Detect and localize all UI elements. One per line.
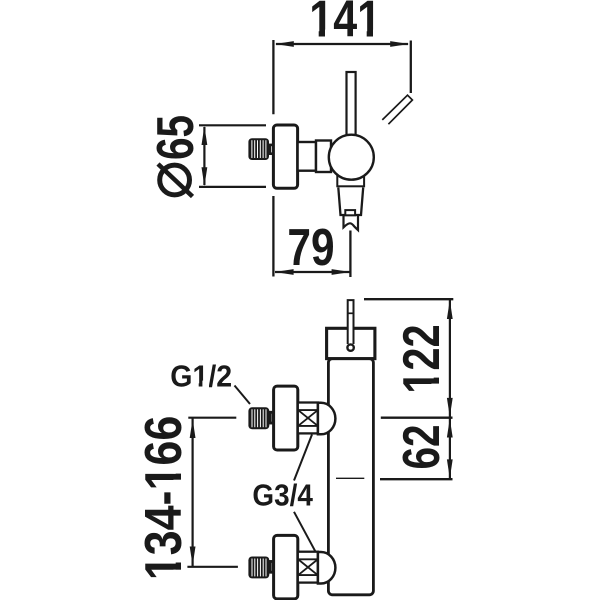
X cross upper <box>299 411 317 425</box>
handle lever bar (side view) <box>347 72 356 140</box>
svg-text:134-166: 134-166 <box>135 416 193 581</box>
svg-text:141: 141 <box>309 0 381 48</box>
spout tip with wavy break edge <box>344 216 359 230</box>
body segment A (side view) <box>298 142 316 171</box>
stem lower <box>270 561 273 572</box>
pivot circle <box>347 344 353 350</box>
escutcheon lower <box>274 535 298 599</box>
wall flange (side view) <box>273 125 297 188</box>
handle alt-position stick (diagonal) <box>382 95 412 124</box>
white patches to remove Liberation "1" foot serifs <box>173 30 441 580</box>
leader G3/4 upper <box>294 435 312 481</box>
body seam line <box>336 477 364 479</box>
arrow up Ø65 <box>202 126 208 145</box>
svg-text:65: 65 <box>146 115 204 160</box>
mixer body circle (side view) <box>329 135 374 180</box>
arrow down Ø65 <box>202 167 208 186</box>
svg-text:G1/2: G1/2 <box>170 359 232 393</box>
side nipple G1/2 (top view) <box>248 138 269 160</box>
body top cap (front view) <box>327 328 375 358</box>
nipple G1/2 (front, lower) <box>248 557 269 579</box>
ext line left 141/79 upper segment <box>272 40 274 114</box>
arrow left 141 <box>275 41 294 47</box>
arrow down 134-166 <box>190 547 196 566</box>
arrow down 62 <box>447 459 453 478</box>
dim line 141 <box>276 43 408 45</box>
D-cap lower <box>318 552 336 584</box>
D-cap upper <box>318 403 336 435</box>
union nut lower <box>298 552 318 583</box>
leader G1/2 <box>235 386 251 405</box>
body main (front view) <box>328 359 373 595</box>
leader G3/4 lower <box>294 512 315 552</box>
arrow right 141 <box>390 41 409 47</box>
ext line top 134-166 <box>188 417 236 419</box>
nipple G1/2 (front) <box>248 407 269 429</box>
arrow right 79 <box>332 269 351 275</box>
ext line right 79 <box>349 231 351 278</box>
svg-text:62: 62 <box>392 424 450 469</box>
side stem <box>270 145 274 154</box>
body segment B (side view) <box>316 141 331 173</box>
spout slot <box>345 210 355 215</box>
ext line right 62 bottom <box>380 478 453 480</box>
svg-text:G3/4: G3/4 <box>252 478 313 513</box>
escutcheon upper <box>274 386 298 450</box>
ext line bottom Ø65 <box>199 186 266 188</box>
svg-text:79: 79 <box>287 219 334 277</box>
arrow down 122 <box>447 398 453 417</box>
arrow left 79 <box>275 269 294 275</box>
lever pin mid line <box>347 312 354 314</box>
ext line bottom 134-166 <box>187 566 238 568</box>
diameter symbol slash <box>158 164 193 197</box>
dim line 79 <box>275 271 350 273</box>
dim line 134-166 <box>192 419 194 567</box>
spout taper <box>338 188 363 216</box>
svg-text:122: 122 <box>392 324 451 393</box>
ext line left 79 lower segment <box>272 196 274 277</box>
arrow up 134-166 <box>190 419 196 438</box>
union nut upper <box>298 403 318 434</box>
stem upper <box>270 412 273 423</box>
spout collar <box>337 162 364 186</box>
arrow up 122 <box>447 300 453 319</box>
ext line right 141 <box>410 41 412 94</box>
dim line Ø65 <box>203 127 205 185</box>
ext line right 122/62 middle <box>381 417 453 419</box>
ext line right 122 top <box>364 298 453 300</box>
ext line top Ø65 <box>199 124 266 126</box>
arrow up 62 <box>447 419 453 438</box>
diameter symbol circle <box>160 165 190 195</box>
dim line 122/62 <box>449 299 451 479</box>
X cross lower <box>299 560 317 574</box>
lever pin through cap (front view) <box>348 300 354 344</box>
